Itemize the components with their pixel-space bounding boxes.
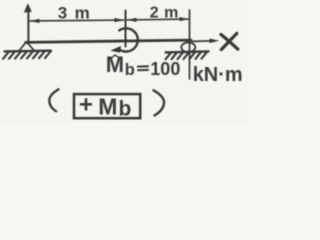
left parenthesis [49,89,58,111]
dim arrow right (3m) [115,18,124,22]
right ground hatching [166,53,207,60]
right parenthesis [154,90,165,115]
left ground hatching [3,52,51,59]
right extension line [189,10,191,79]
dim arrow left (3m) [30,19,40,23]
left pin support triangle [19,42,35,51]
left ground line [5,50,52,53]
moment arc Mb [119,28,138,51]
dimension line 2m [127,18,188,21]
beam [26,40,191,42]
moment arc arrowhead [110,46,121,53]
paper noise [0,0,1,1]
right ground line [166,51,209,52]
caret above M [112,55,119,58]
roller circle [181,42,195,52]
left up-arrow shaft [27,12,29,43]
dimension line 3m [30,19,123,22]
x-axis arrow [193,40,212,43]
dim arrow right (2m) [180,17,189,21]
label = [137,65,149,67]
X letter [221,35,238,50]
left up-arrow head [24,3,32,12]
center tick [125,11,127,47]
background paper [0,0,249,124]
dim arrow left (2m) [127,18,136,22]
box around +Mb [74,94,140,118]
